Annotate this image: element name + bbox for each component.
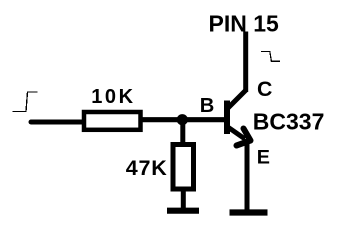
svg-text:C: C: [257, 77, 272, 101]
svg-text:10K: 10K: [91, 86, 136, 108]
ground (R2): [167, 208, 199, 214]
input rising-edge pulse symbol: [13, 92, 38, 112]
svg-text:E: E: [257, 147, 270, 169]
wire input to R1: [31, 120, 83, 125]
wire node down to R2: [180, 120, 185, 144]
wire collector to PIN 15: [243, 32, 248, 93]
wire R1 to base node: [141, 117, 226, 122]
transistor Q1 emitter stroke with arrow: [227, 127, 245, 140]
transistor Q1 collector stroke: [228, 90, 247, 109]
resistor R1 10K: [84, 112, 141, 130]
wire R2 to ground: [181, 189, 186, 208]
svg-text:B: B: [200, 95, 215, 117]
resistor R2 47K: [173, 145, 194, 190]
svg-text:BC337: BC337: [253, 109, 325, 135]
wire emitter to ground: [245, 139, 250, 212]
output falling-edge pulse symbol: [261, 52, 280, 62]
ground (emitter): [230, 209, 268, 215]
emitter arrow head: [237, 129, 251, 146]
node junction dot: [177, 114, 188, 125]
svg-text:PIN 15: PIN 15: [209, 11, 280, 37]
svg-text:47K: 47K: [126, 156, 168, 180]
transistor Q1 base bar: [224, 101, 230, 135]
